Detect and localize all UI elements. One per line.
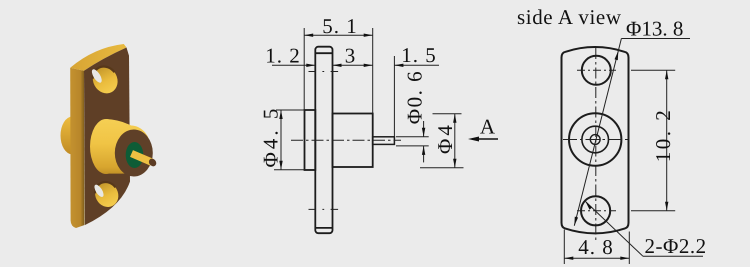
main body (side view, phi 4, 3 long): [333, 114, 373, 168]
bottom mounting hole (3D): [91, 178, 123, 211]
svg-text:1. 5: 1. 5: [401, 43, 437, 67]
flange outline (front): [562, 47, 629, 233]
top mounting hole (front): [577, 56, 616, 85]
top hole see-through sliver: [90, 68, 104, 84]
bottom hole see-through sliver: [93, 183, 106, 198]
center pin (gold): [132, 154, 158, 168]
svg-text:2-Φ2.2: 2-Φ2.2: [645, 234, 707, 258]
center pin (side view, phi 0.6, 1.5 long): [373, 137, 395, 145]
flange left side face (gold strip): [70, 68, 84, 228]
svg-text:10. 2: 10. 2: [651, 108, 675, 163]
bottom mounting hole (front): [577, 196, 616, 225]
svg-text:Φ4. 5: Φ4. 5: [259, 106, 283, 168]
dimension phi 13.8 with diagonal leader: [574, 39, 690, 226]
rear boss (side view, phi 4.5): [305, 110, 316, 170]
connector body cylinder rear ellipse: [90, 119, 122, 174]
centerline (horizontal axis): [291, 72, 401, 210]
dimension 3: [333, 64, 373, 67]
svg-text:Φ4: Φ4: [433, 122, 457, 154]
dielectric (green disc): [126, 142, 144, 168]
center circles: body, dielectric, pin (front): [563, 113, 629, 165]
title: side A view: [517, 5, 622, 29]
dimension phi 4.5: [274, 110, 316, 170]
hole centerline top: [309, 71, 339, 73]
svg-text:4. 8: 4. 8: [578, 235, 614, 259]
rear boss (gold bump on left of flange): [61, 117, 85, 155]
dimension phi 4: [420, 114, 464, 168]
svg-text:1. 2: 1. 2: [265, 44, 301, 68]
top mounting hole (3D): [88, 62, 122, 98]
vertical centerline: [595, 48, 597, 240]
svg-text:Φ0. 6: Φ0. 6: [403, 70, 427, 124]
svg-text:Φ13. 8: Φ13. 8: [626, 17, 683, 41]
connector body front rim (gold): [111, 126, 151, 174]
dimension 4.8: [564, 230, 629, 265]
connector body cylinder side (gold tube): [106, 119, 133, 174]
hole centerline bottom: [309, 208, 339, 210]
dimension 2-phi 2.2 with leader: [586, 202, 704, 257]
svg-text:3: 3: [345, 44, 356, 68]
flange front face (brown): [84, 48, 130, 226]
flange plate (side view, 1.2 thick): [315, 47, 332, 234]
svg-text:A: A: [480, 115, 496, 139]
connector body front face (brown disc): [115, 130, 153, 177]
dimension 5.1: [304, 28, 373, 114]
dimension phi 0.6: [396, 121, 429, 162]
section arrow A: [468, 137, 498, 142]
flange top face (gold band): [70, 44, 126, 71]
svg-text:5. 1: 5. 1: [322, 14, 358, 38]
svg-text:side A view: side A view: [517, 5, 622, 29]
dimension 1.2: [272, 64, 315, 67]
dimension 10.2: [631, 70, 675, 211]
dimension 1.5: [394, 56, 439, 137]
